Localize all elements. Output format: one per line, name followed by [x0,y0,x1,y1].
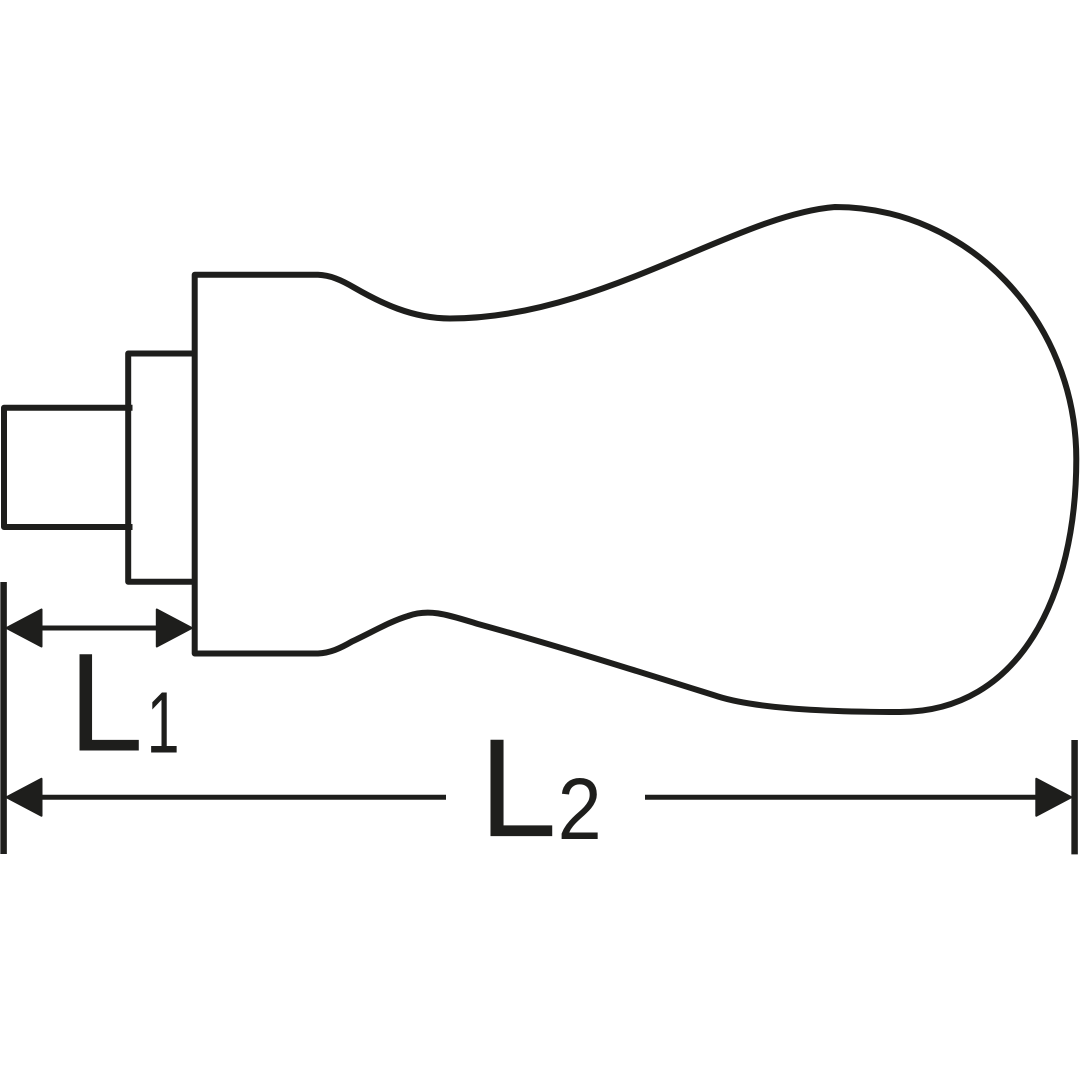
svg-text:1: 1 [147,674,180,771]
svg-text:L: L [69,625,144,781]
shaft [4,408,133,527]
L2 right arrowhead [1036,779,1071,816]
L2 left arrowhead [7,779,42,816]
handle outline [195,207,1077,712]
svg-text:L: L [479,709,557,866]
dimension line L1 [38,626,160,631]
L1 right arrowhead [157,610,192,647]
svg-text:2: 2 [558,761,602,858]
dimension line L2 left segment [40,795,446,800]
collar [128,354,194,582]
left extension bar [0,582,7,854]
dimension line L2 right segment [645,795,1037,800]
right extension bar [1071,740,1078,854]
L1 left arrowhead [7,610,42,647]
